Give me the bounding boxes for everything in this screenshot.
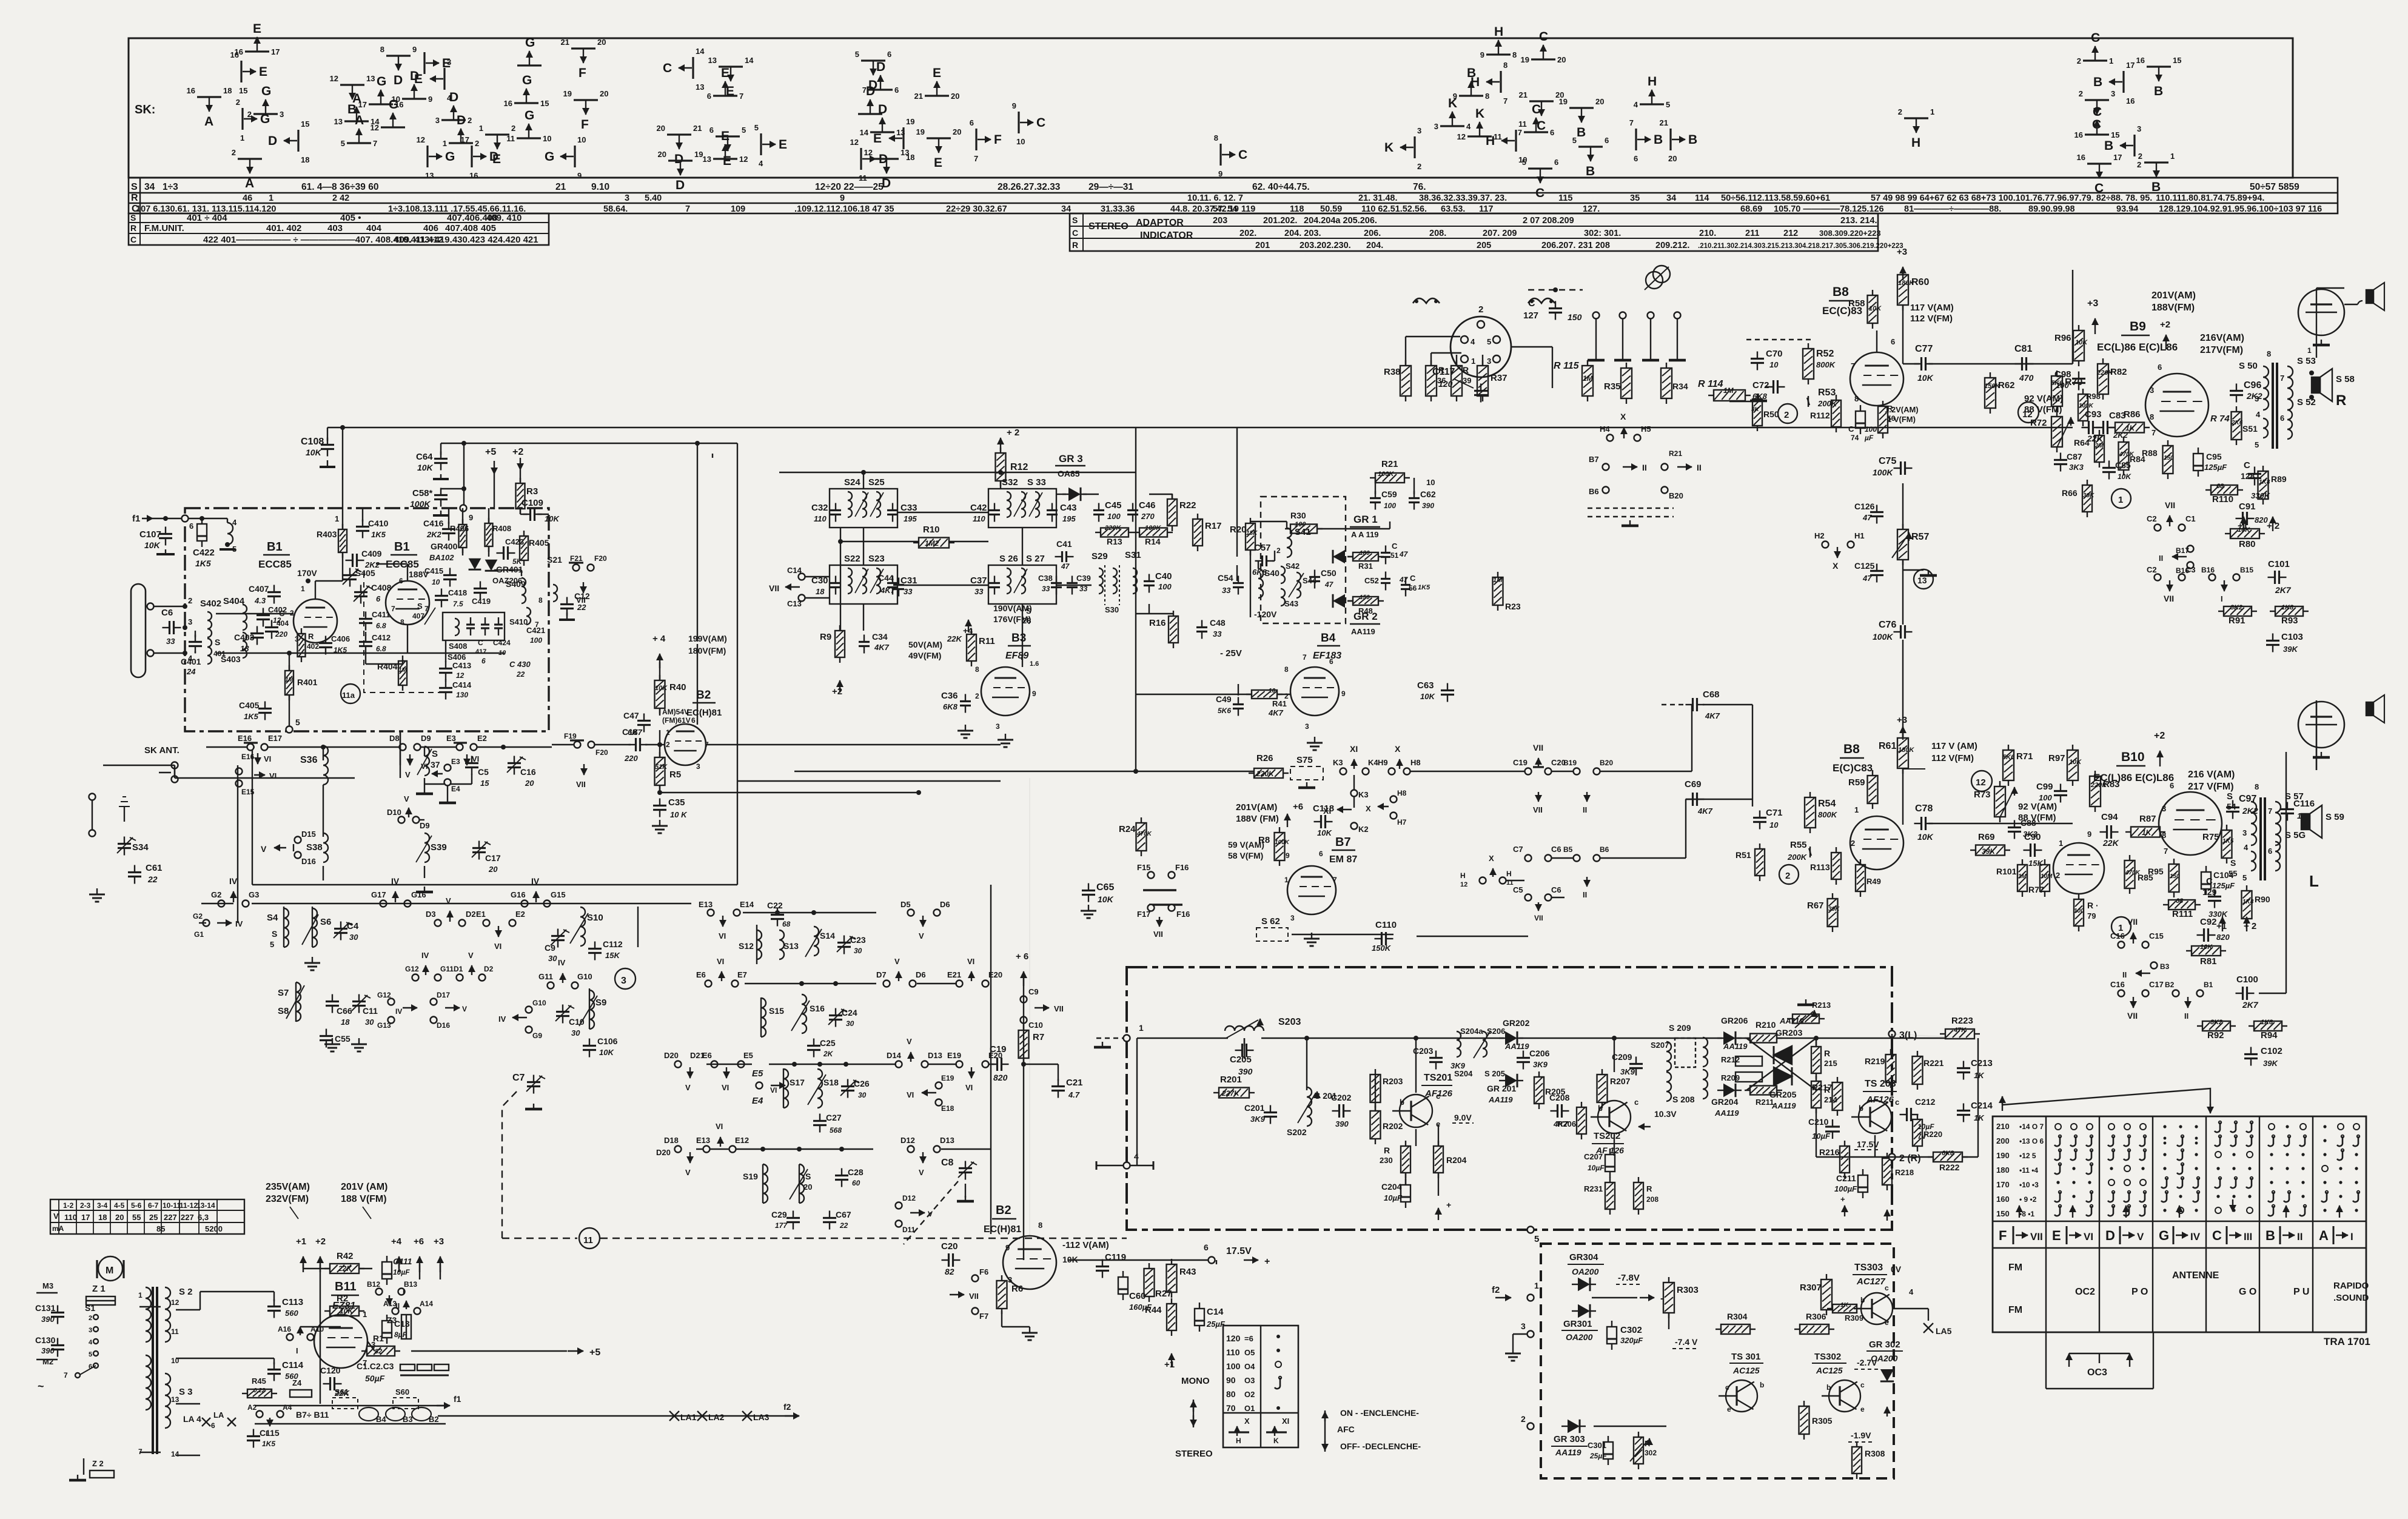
- speaker S58: [2312, 377, 2320, 393]
- terminal posts: [1593, 312, 1600, 319]
- svg-text:VI: VI: [719, 931, 726, 941]
- svg-text:C20: C20: [941, 1241, 958, 1252]
- svg-text:R73: R73: [1974, 790, 1991, 800]
- svg-text:R81: R81: [2200, 956, 2217, 967]
- svg-text:3: 3: [1290, 914, 1295, 922]
- svg-text:H1: H1: [1854, 531, 1865, 540]
- svg-text:2: 2: [2056, 871, 2060, 880]
- svg-text:S34: S34: [132, 842, 149, 853]
- svg-text:II: II: [2159, 554, 2163, 563]
- fuse Z1: [86, 1296, 115, 1305]
- switch D8 D9: [400, 744, 406, 751]
- svg-text:G10: G10: [577, 972, 592, 981]
- svg-text:F19: F19: [564, 732, 577, 740]
- svg-text:B2: B2: [696, 689, 711, 702]
- potentiometer R213: [1793, 1014, 1819, 1024]
- resistor R90: [2242, 891, 2252, 919]
- svg-text:6: 6: [1319, 850, 1323, 858]
- svg-text:127: 127: [1523, 310, 1538, 321]
- svg-text:C26: C26: [854, 1079, 870, 1088]
- svg-text:4K7: 4K7: [874, 643, 890, 652]
- svg-text:R67: R67: [1807, 900, 1824, 911]
- svg-text:E13: E13: [699, 900, 713, 909]
- capacitor C418: [435, 595, 448, 597]
- ground S4: [312, 957, 313, 963]
- resistor R14: [1139, 528, 1167, 537]
- capacitor C32: [830, 509, 841, 511]
- arrows +1 +2: [303, 1256, 304, 1272]
- wire bottom bus to decoder: [1216, 1260, 1217, 1264]
- svg-text:C91: C91: [2239, 501, 2256, 512]
- svg-text:D7: D7: [876, 970, 887, 979]
- svg-text:R304: R304: [1727, 1312, 1748, 1321]
- svg-text:C22: C22: [767, 900, 783, 910]
- svg-text:•10 •3: •10 •3: [2019, 1181, 2039, 1189]
- svg-text:V: V: [261, 844, 267, 854]
- svg-text:e: e: [1727, 1405, 1731, 1413]
- switch E16b E15: [236, 768, 243, 775]
- switch symbol B: [1459, 95, 1483, 96]
- svg-text:.109.12.112.106.18 47 35: .109.12.112.106.18 47 35: [794, 204, 894, 214]
- svg-text:H: H: [1911, 136, 1920, 150]
- svg-text:R77: R77: [2028, 885, 2044, 894]
- resistor R23: [1493, 577, 1503, 605]
- svg-text:C412: C412: [372, 633, 391, 642]
- svg-text:0.22: 0.22: [253, 1387, 266, 1394]
- svg-text:X: X: [1620, 412, 1626, 421]
- svg-text:R51: R51: [1736, 850, 1751, 860]
- svg-text:B3: B3: [403, 1415, 413, 1424]
- svg-text:S17: S17: [790, 1078, 805, 1087]
- switch symbol G: [381, 126, 405, 128]
- svg-text:R5: R5: [669, 770, 681, 780]
- svg-text:4.3: 4.3: [254, 596, 266, 605]
- svg-text:3: 3: [280, 110, 284, 119]
- svg-text:C13: C13: [787, 599, 802, 608]
- svg-text:S402: S402: [200, 599, 221, 609]
- wire AM row1: [206, 746, 247, 748]
- svg-text:C206: C206: [1529, 1048, 1550, 1058]
- svg-text:EF183: EF183: [1313, 651, 1341, 661]
- svg-text:III: III: [2244, 1231, 2252, 1242]
- svg-text:D: D: [878, 102, 887, 116]
- switch D10 D9b: [398, 817, 405, 823]
- capacitor C120: [329, 1377, 331, 1390]
- headphone jack upper: [2298, 289, 2344, 335]
- svg-text:D: D: [876, 60, 885, 74]
- svg-text:1K: 1K: [1974, 1113, 1985, 1122]
- svg-text:10K: 10K: [545, 514, 560, 523]
- switch-table frame SK: [129, 38, 2293, 178]
- arrow +2 B10: [2159, 751, 2161, 766]
- potentiometer R302: [1634, 1437, 1643, 1464]
- svg-text:1: 1: [240, 133, 244, 143]
- voltage table: [50, 1199, 244, 1234]
- svg-text:60: 60: [852, 1179, 860, 1187]
- svg-text:R222: R222: [1939, 1162, 1960, 1172]
- svg-text:F7: F7: [979, 1312, 988, 1321]
- svg-text:R10: R10: [923, 525, 940, 535]
- switch symbol E: [443, 68, 445, 90]
- svg-text:10K: 10K: [1917, 832, 1934, 842]
- svg-text:A14: A14: [420, 1299, 433, 1308]
- svg-text:B2: B2: [429, 1415, 439, 1424]
- switch A16 A10: [287, 1334, 293, 1341]
- switch symbol F: [571, 47, 595, 49]
- svg-text:R62: R62: [1998, 380, 2015, 391]
- resistor R27: [1144, 1269, 1155, 1296]
- resistor R84: [2119, 442, 2129, 470]
- svg-text:C69: C69: [1685, 779, 1702, 790]
- switch symbol C: [2083, 59, 2107, 61]
- circled 2: [1778, 404, 1797, 423]
- tube B8 lower: [1850, 816, 1903, 870]
- capacitor C38: [1051, 582, 1062, 584]
- svg-text:R49: R49: [1866, 877, 1881, 886]
- svg-text:C71: C71: [1766, 808, 1783, 818]
- svg-text:+1: +1: [1164, 1360, 1175, 1370]
- svg-text:S15: S15: [769, 1006, 784, 1016]
- svg-text:S 59: S 59: [2326, 812, 2344, 822]
- svg-text:F20: F20: [595, 748, 608, 757]
- svg-text:E2: E2: [515, 910, 525, 919]
- tube B9: [2145, 374, 2208, 437]
- svg-text:12: 12: [864, 148, 873, 157]
- svg-text:C38: C38: [1038, 574, 1053, 583]
- svg-text:B4: B4: [1321, 632, 1336, 645]
- svg-text:39K: 39K: [1982, 847, 1996, 856]
- svg-text:10K: 10K: [2069, 759, 2082, 766]
- svg-text:G: G: [545, 150, 554, 164]
- node 5 FM: [286, 726, 293, 733]
- svg-text:10M: 10M: [2041, 873, 2053, 880]
- svg-text:16: 16: [230, 50, 239, 59]
- svg-text:401. 402: 401. 402: [266, 223, 301, 233]
- svg-text:e: e: [1885, 1318, 1889, 1327]
- switch symbol B: [2122, 71, 2124, 93]
- switch symbol E: [716, 135, 740, 137]
- ground B2: [1029, 1327, 1030, 1333]
- svg-text:C 430: C 430: [509, 660, 531, 669]
- svg-text:10: 10: [1769, 820, 1779, 830]
- capacitor C117: [1474, 390, 1487, 392]
- svg-text:Z4: Z4: [292, 1378, 302, 1387]
- svg-text:E19: E19: [947, 1051, 961, 1060]
- svg-text:S: S: [131, 182, 138, 192]
- svg-text:E2: E2: [477, 734, 487, 743]
- svg-text:R41: R41: [1272, 699, 1287, 708]
- svg-text:X: X: [1366, 804, 1371, 813]
- diode GR204: [1723, 1084, 1736, 1097]
- svg-text:B4: B4: [376, 1415, 386, 1424]
- svg-text:47: 47: [1862, 574, 1872, 583]
- svg-text:3(L): 3(L): [1899, 1030, 1917, 1041]
- svg-text:18: 18: [240, 644, 249, 653]
- svg-text:1: 1: [1471, 357, 1475, 366]
- resistor R55: [1809, 851, 1811, 853]
- svg-text:8K2: 8K2: [2210, 1019, 2222, 1026]
- capacitor C87: [2054, 459, 2067, 461]
- svg-text:R34: R34: [1672, 381, 1688, 391]
- svg-text:3: 3: [1417, 126, 1421, 135]
- resistor R62: [1985, 378, 1996, 408]
- svg-text:H: H: [1506, 870, 1512, 878]
- svg-text:50÷57 5859: 50÷57 5859: [2250, 182, 2299, 192]
- svg-text:12: 12: [1976, 777, 1986, 788]
- capacitor C62: [1409, 497, 1420, 499]
- svg-text:AA119: AA119: [1723, 1042, 1748, 1051]
- svg-text:100K: 100K: [1873, 632, 1893, 642]
- switch E1 E2b: [483, 920, 490, 927]
- svg-text:22: 22: [839, 1221, 848, 1230]
- wire output top: [2072, 270, 2073, 364]
- dashed screen lines: [1588, 508, 1674, 509]
- svg-text:F20: F20: [594, 554, 607, 563]
- tube B3: [981, 667, 1030, 716]
- svg-text:C2: C2: [2147, 565, 2157, 574]
- svg-text:57 49 98 99 64+67 62 63 68+: 57 49 98 99 64+67 62 63 68+73 100.101.76…: [1871, 193, 2152, 203]
- svg-text:B16: B16: [2201, 566, 2215, 574]
- oscillator dashed box: [364, 572, 443, 692]
- svg-text:C302: C302: [1620, 1325, 1642, 1335]
- switch symbol A: [197, 96, 221, 98]
- coil S201 S202: [1307, 1087, 1312, 1126]
- svg-text:6: 6: [399, 577, 403, 585]
- resistor R80: [2230, 529, 2259, 538]
- svg-text:21: 21: [555, 182, 566, 192]
- svg-text:R95: R95: [2148, 867, 2164, 876]
- svg-text:C6: C6: [161, 608, 173, 618]
- svg-text:80: 80: [1226, 1389, 1236, 1399]
- svg-text:S36: S36: [300, 755, 318, 765]
- svg-text:B20: B20: [1600, 759, 1613, 767]
- resistor R42: [330, 1264, 359, 1273]
- resistor R205: [1534, 1077, 1544, 1104]
- svg-text:200K: 200K: [1787, 853, 1808, 862]
- svg-text:201: 201: [1255, 241, 1270, 250]
- svg-text:VII: VII: [969, 1292, 979, 1301]
- svg-text:S: S: [130, 213, 136, 223]
- wire decoder to C110: [1417, 936, 1528, 937]
- svg-text:ADAPTOR: ADAPTOR: [1136, 218, 1184, 228]
- svg-text:D9: D9: [421, 734, 431, 743]
- svg-text:R87: R87: [2139, 814, 2156, 824]
- capacitor C56: [1401, 584, 1410, 586]
- svg-text:110: 110: [973, 514, 985, 523]
- svg-text:9: 9: [412, 45, 417, 54]
- capacitor C205: [1241, 1044, 1243, 1057]
- svg-text:C39: C39: [1076, 574, 1091, 583]
- svg-text:R9: R9: [820, 632, 831, 642]
- svg-text:C33: C33: [900, 503, 917, 513]
- capacitor C118: [1320, 815, 1322, 828]
- svg-text:10µF: 10µF: [1384, 1193, 1403, 1202]
- resistor R41: [1252, 690, 1277, 699]
- svg-text:D6: D6: [916, 970, 926, 979]
- svg-text:R72: R72: [2030, 418, 2047, 428]
- svg-text:2: 2: [2077, 56, 2081, 65]
- svg-text:31.33.36: 31.33.36: [1101, 204, 1135, 214]
- ground symbol: [96, 888, 98, 894]
- svg-text:B5: B5: [1563, 845, 1573, 854]
- svg-text:190V(AM): 190V(AM): [993, 603, 1032, 613]
- svg-text:47: 47: [1862, 513, 1872, 522]
- svg-text:33: 33: [904, 587, 913, 596]
- svg-text:1: 1: [138, 1291, 143, 1299]
- svg-text:12: 12: [1457, 132, 1466, 141]
- svg-text:206.207. 231 208: 206.207. 231 208: [1541, 241, 1610, 250]
- svg-text:R: R: [131, 193, 138, 203]
- svg-text:V: V: [894, 957, 900, 966]
- svg-text:6: 6: [1550, 128, 1554, 137]
- svg-text:C: C: [1238, 148, 1247, 162]
- svg-text:G11: G11: [440, 965, 454, 973]
- tube B10 triode: [2053, 843, 2104, 894]
- svg-text:6: 6: [189, 521, 193, 531]
- svg-text:IV: IV: [391, 876, 400, 886]
- svg-text:C61: C61: [146, 863, 163, 873]
- svg-text:7: 7: [1518, 128, 1522, 137]
- wire IF out line: [794, 771, 1254, 772]
- resistor R61: [1897, 738, 1908, 768]
- svg-text:16: 16: [469, 171, 478, 180]
- IF transformer S26 S27: [988, 565, 1056, 604]
- svg-text:11-12: 11-12: [179, 1201, 198, 1210]
- svg-text:I: I: [403, 1288, 404, 1296]
- svg-text:D: D: [394, 73, 403, 87]
- wire C108 junction: [342, 428, 343, 529]
- resistor R212 slant: [1736, 1056, 1762, 1066]
- svg-text:180: 180: [1996, 1165, 2010, 1175]
- switch H9 H8: [1389, 768, 1395, 775]
- svg-text:LA2: LA2: [708, 1412, 725, 1422]
- switch symbol C: [2085, 133, 2109, 135]
- svg-text:MONO: MONO: [1181, 1376, 1210, 1386]
- coil S17: [783, 1069, 788, 1108]
- svg-text:180V(FM): 180V(FM): [688, 646, 726, 656]
- svg-text:54: 54: [2227, 802, 2236, 811]
- capacitor C20: [948, 1253, 950, 1267]
- svg-text:404: 404: [366, 223, 382, 233]
- capacitor C13: [382, 1321, 392, 1338]
- svg-text:D: D: [268, 134, 277, 148]
- svg-text:390: 390: [41, 1346, 55, 1355]
- svg-text:C65: C65: [1096, 882, 1114, 893]
- svg-text:D14: D14: [887, 1051, 902, 1060]
- capacitor C125: [1870, 570, 1883, 572]
- svg-text:VI: VI: [722, 1083, 729, 1092]
- svg-text:INDICATOR: INDICATOR: [1140, 230, 1193, 241]
- svg-text:E7: E7: [737, 970, 747, 979]
- svg-text:S10: S10: [587, 913, 603, 923]
- svg-text:58.64.: 58.64.: [603, 204, 628, 214]
- svg-text:-1.9V: -1.9V: [1851, 1430, 1871, 1440]
- svg-text:C107: C107: [139, 529, 161, 540]
- svg-text:57. 54: 57. 54: [1213, 204, 1237, 214]
- svg-text:7: 7: [739, 92, 743, 101]
- capacitor C57: [1261, 555, 1263, 566]
- svg-text:568: 568: [830, 1126, 842, 1135]
- capacitor C107: [159, 533, 172, 535]
- svg-text:R405: R405: [529, 538, 549, 548]
- svg-text:VI: VI: [967, 957, 974, 966]
- svg-text:9: 9: [469, 513, 473, 522]
- svg-text:6: 6: [1554, 158, 1558, 167]
- svg-text:C110: C110: [1375, 920, 1397, 930]
- svg-text:S31: S31: [1125, 550, 1141, 560]
- svg-text:AC127: AC127: [1856, 1276, 1885, 1287]
- resistor R216: [1840, 1146, 1850, 1173]
- svg-text:FM: FM: [2008, 1262, 2022, 1273]
- circled 3: [615, 968, 636, 989]
- resistor R214: [1811, 1081, 1821, 1108]
- node 1 decoder: [1124, 1035, 1130, 1042]
- svg-text:190: 190: [1996, 1151, 2010, 1160]
- svg-text:21: 21: [914, 92, 923, 101]
- svg-text:10µF: 10µF: [393, 1268, 410, 1276]
- svg-text:G: G: [2159, 1228, 2169, 1243]
- coil S206: [1483, 1031, 1487, 1057]
- resistor R94: [2254, 1021, 2282, 1031]
- IF transformer S24 S25: [830, 489, 897, 528]
- svg-text:100: 100: [2056, 381, 2069, 390]
- svg-text:10: 10: [1769, 360, 1779, 369]
- svg-text:17.5V: 17.5V: [1857, 1139, 1879, 1149]
- svg-text:V: V: [53, 1212, 59, 1221]
- resistor R209 slant: [1736, 1072, 1762, 1082]
- svg-text:B19: B19: [1563, 759, 1577, 767]
- svg-text:b: b: [1598, 1104, 1603, 1113]
- svg-text:X: X: [1395, 744, 1401, 754]
- svg-text:11: 11: [506, 134, 515, 143]
- resistor R112: [1831, 400, 1841, 427]
- svg-text:204. 203.: 204. 203.: [1284, 229, 1321, 238]
- svg-text:5: 5: [1487, 337, 1491, 346]
- svg-text:470K: 470K: [2125, 870, 2141, 876]
- capacitor C210: [1825, 1125, 1840, 1127]
- resistor R307: [1821, 1279, 1832, 1310]
- svg-text:10K: 10K: [1098, 894, 1114, 904]
- svg-text:1.6: 1.6: [1030, 660, 1039, 668]
- switch H8b H7: [1390, 796, 1397, 803]
- svg-text:S406: S406: [448, 652, 466, 662]
- svg-text:110.111.80.81.74.75.89+94.: 110.111.80.81.74.75.89+94.: [2156, 193, 2264, 203]
- svg-text:R54: R54: [1818, 799, 1836, 809]
- svg-text:R31: R31: [1358, 562, 1373, 571]
- svg-text:1: 1: [335, 514, 339, 523]
- svg-text:R71: R71: [2016, 751, 2033, 762]
- svg-text:S 58: S 58: [2336, 374, 2355, 384]
- svg-text:B15: B15: [2240, 566, 2253, 574]
- svg-text:90: 90: [1226, 1375, 1236, 1385]
- svg-text:6.8: 6.8: [376, 622, 386, 630]
- svg-text:R206: R206: [1557, 1119, 1576, 1128]
- svg-text:C75: C75: [1879, 456, 1896, 466]
- svg-text:G16: G16: [511, 890, 526, 899]
- svg-text:S204a: S204a: [1460, 1027, 1483, 1036]
- svg-text:R88: R88: [2142, 448, 2158, 458]
- svg-text:O1: O1: [1244, 1404, 1255, 1413]
- capacitor C72: [1772, 380, 1774, 394]
- svg-text:188V (FM): 188V (FM): [1236, 814, 1279, 824]
- wire main left vertical: [237, 904, 238, 923]
- capacitor C14b: [1195, 1309, 1204, 1326]
- svg-text:79: 79: [2087, 911, 2096, 920]
- transistor TS301: [1726, 1380, 1757, 1412]
- svg-text:88 V(FM): 88 V(FM): [2024, 404, 2062, 415]
- ground B3: [1005, 734, 1006, 740]
- svg-text:39K: 39K: [2283, 645, 2298, 654]
